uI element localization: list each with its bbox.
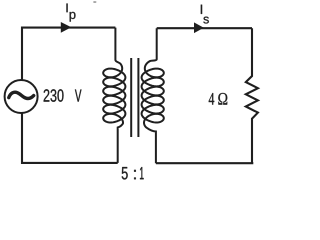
label 4 ohm: 4 xyxy=(209,93,214,105)
resistor 4 ohm zigzag xyxy=(246,28,258,163)
ac source 230 V circle xyxy=(5,80,38,113)
turns ratio 5 xyxy=(122,167,128,179)
turns ratio 1 xyxy=(140,167,144,179)
label 230 V: V xyxy=(75,89,82,101)
transformer core line 1 xyxy=(130,58,132,137)
label Ip: p subscript xyxy=(70,12,76,22)
label Is: I xyxy=(201,5,202,14)
label Is: s subscript xyxy=(203,17,208,24)
wire: secondary loop top xyxy=(157,27,252,29)
label Ip: I xyxy=(66,4,67,13)
turns ratio colon xyxy=(134,170,136,179)
ac source sine symbol xyxy=(9,92,34,98)
transformer secondary coil L2 xyxy=(142,28,164,163)
label 4 ohm: omega xyxy=(218,93,227,105)
wire: primary loop bottom-left xyxy=(22,114,118,163)
speck artifact xyxy=(93,1,96,3)
wire: primary loop top-left xyxy=(22,28,115,80)
wire: secondary loop bottom xyxy=(156,162,253,164)
label 230 V: 230 xyxy=(44,89,64,101)
transformer core line 2 xyxy=(137,58,139,137)
arrow Ip current direction xyxy=(61,22,72,33)
transformer primary coil L1 xyxy=(103,28,125,163)
arrow Is current direction xyxy=(194,22,204,33)
